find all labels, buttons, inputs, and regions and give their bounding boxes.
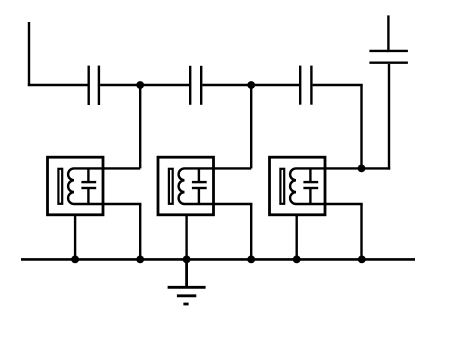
wire: input lead, top-left vertical [28,22,30,86]
shield box of tank 2 [158,157,214,215]
wire: tank 2 top link [185,167,214,169]
capacitor C2 (series) [190,66,201,105]
wire: top bus segment 3 [202,84,299,86]
wire: tank 2 can lead to ground bus [185,214,187,259]
wire: vertical up to output capacitor [388,64,390,170]
wire: top bus corner down to tank 3 top node [360,85,362,168]
node A junction dot on top bus [136,81,144,89]
wire: tank 1 can lead to ground bus [74,214,76,259]
inductor L1 (coil, 3 left bumps) [68,168,74,204]
wire: node A down to tank 1 top [139,85,141,168]
node: ground bus dot 5 [293,256,301,264]
wire: tank 2 top exit to riser [214,167,252,169]
capacitor C3 (series) [300,66,311,105]
inductor L2 (coil, 3 left bumps) [179,168,185,204]
wire: tank 3 right drop to ground bus [360,204,362,259]
wire: tank 3 bottom exit [325,203,363,205]
wire: tank 1 top exit to riser [103,167,140,169]
wire: tank 3 bottom link [296,203,325,205]
wire: tank 2 bottom link [185,203,214,205]
core bar of tank 1 [58,169,62,204]
node: ground bus dot 1 [71,256,79,264]
wire: top bus segment 2 [100,84,189,86]
wire: tank 1 bottom exit [103,203,141,205]
node: ground bus dot 6 [358,256,366,264]
node C junction dot at tank 3 top [358,165,366,173]
node B junction dot on top bus [247,81,255,89]
wire: tank 1 right drop to ground bus [139,204,141,259]
capacitor C4 (output, vertical) [369,51,408,63]
wire: ground bus [21,258,415,261]
wire: tank 1 bottom link [74,203,103,205]
capacitor inside tank 2 (trimmer) [192,168,207,204]
capacitor inside tank 3 (trimmer) [303,168,318,204]
core bar of tank 2 [169,169,173,204]
inductor L3 (coil, 3 left bumps) [290,168,296,204]
wire: tank 3 can lead to ground bus [296,214,298,259]
wire: top bus segment 1 [28,84,88,86]
wire: tank 1 top link [74,167,103,169]
node: ground bus dot 2 [136,256,144,264]
capacitor inside tank 1 (trimmer) [81,168,96,204]
shield box of tank 1 [48,157,104,215]
wire: tank 2 bottom exit [214,203,253,205]
wire: top bus segment 4 [313,84,363,86]
wire: node C to output capacitor leg [362,167,391,169]
ground symbol [168,259,206,304]
wire: output lead above C4 [387,15,389,52]
node: ground bus dot 4 [247,256,255,264]
core bar of tank 3 [280,169,284,204]
wire: tank 2 right drop to ground bus [250,204,252,259]
wire: tank 3 top exit to node C [325,167,362,169]
node: ground bus dot 3 [183,256,191,264]
capacitor C1 (series) [89,66,99,105]
shield box of tank 3 [270,157,326,215]
wire: node B down to tank 2 top [250,85,252,168]
wire: tank 3 top link [296,167,325,169]
